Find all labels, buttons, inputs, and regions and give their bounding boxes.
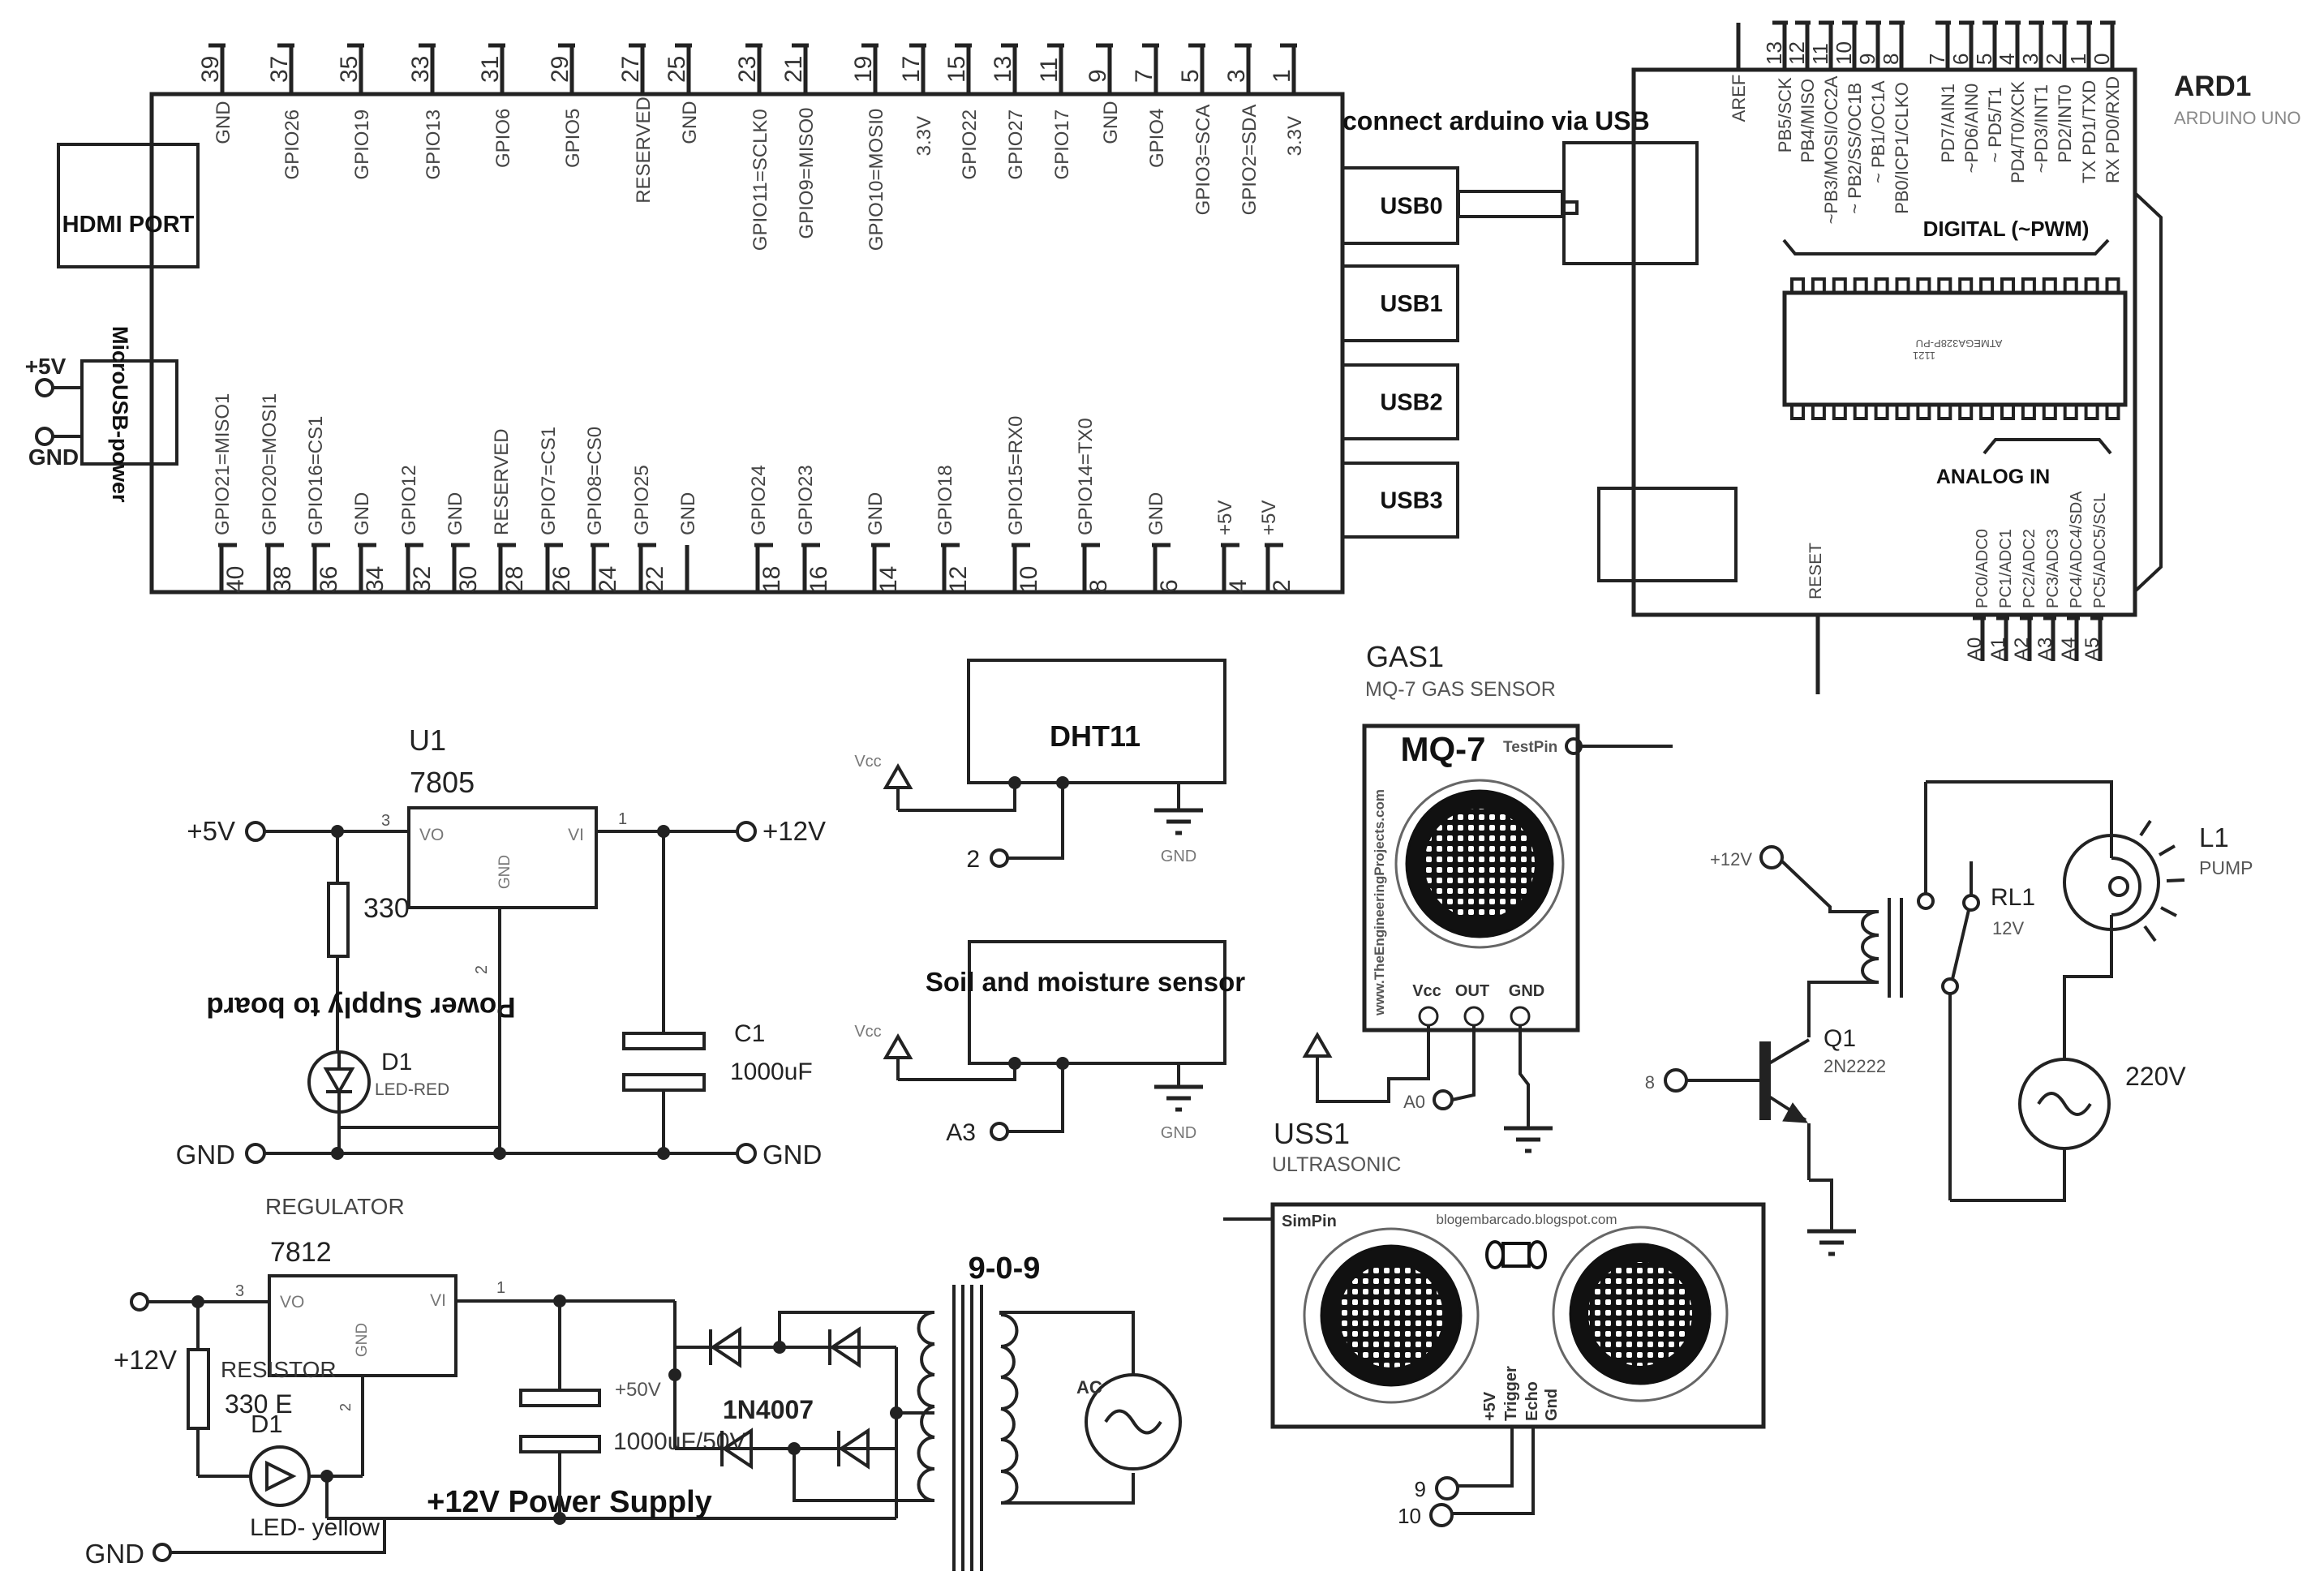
svg-text:USB3: USB3 — [1380, 488, 1442, 514]
svg-text:GPIO24: GPIO24 — [748, 465, 770, 535]
junction node +5V — [331, 825, 344, 838]
svg-text:A2: A2 — [2011, 638, 2033, 661]
svg-text:ULTRASONIC: ULTRASONIC — [1272, 1153, 1401, 1176]
diode D2 1N4007 — [711, 1329, 740, 1365]
designator ARD1 — [2174, 71, 2300, 128]
svg-text:15: 15 — [943, 56, 970, 83]
svg-text:GND: GND — [85, 1539, 144, 1569]
Raspberry Pi board outline — [152, 94, 1342, 592]
svg-text:U1: U1 — [409, 723, 446, 757]
junction GND c — [657, 1147, 670, 1160]
wire GND jog — [170, 1518, 384, 1552]
svg-text:Vcc: Vcc — [854, 753, 881, 771]
RPi pin 40 GPIO21=MISO1 — [212, 393, 249, 593]
svg-text:24: 24 — [595, 566, 621, 593]
svg-text:PUMP: PUMP — [2199, 857, 2253, 878]
svg-text:8: 8 — [1879, 54, 1903, 65]
GND rail wire — [264, 1152, 737, 1155]
junction soil vcc — [1008, 1057, 1021, 1070]
svg-text:Gnd: Gnd — [1543, 1389, 1561, 1421]
wire emitter to ground — [1809, 1180, 1832, 1231]
svg-text:7: 7 — [1925, 54, 1949, 65]
svg-text:ARDUINO UNO: ARDUINO UNO — [2174, 108, 2300, 128]
wire bridge row1 — [675, 1346, 896, 1349]
svg-text:+5V: +5V — [1258, 500, 1280, 535]
wire Echo to 10 — [1452, 1427, 1533, 1513]
Arduino pin A4 — [2058, 615, 2080, 661]
USB3 port — [1342, 463, 1458, 537]
RPi pin 1 3.3V — [1269, 45, 1306, 156]
wire secondary bottom — [1001, 1473, 1133, 1503]
RPi pin 5 GPIO3=SCA — [1177, 45, 1214, 215]
svg-text:2: 2 — [337, 1403, 354, 1411]
terminal GND right — [737, 1140, 822, 1170]
svg-text:40: 40 — [222, 566, 249, 593]
svg-text:+5V: +5V — [1481, 1391, 1499, 1421]
Arduino pin 11 ~PB3/MOSI/OC2A — [1808, 23, 1841, 224]
svg-text:1: 1 — [496, 1279, 505, 1297]
svg-text:3: 3 — [2018, 54, 2043, 65]
wire bridge right — [895, 1347, 898, 1518]
wire soil data to A3 — [1007, 1063, 1063, 1131]
svg-text:GND: GND — [351, 492, 373, 535]
svg-text:GPIO19: GPIO19 — [351, 109, 373, 180]
terminal +12V relay — [1710, 847, 1782, 869]
Arduino pin 10 ~ PB2/SS/OC1B — [1832, 23, 1865, 214]
terminal A3 — [946, 1119, 1007, 1146]
svg-text:14: 14 — [875, 566, 902, 593]
ground Q1 — [1807, 1231, 1856, 1254]
svg-text:GPIO8=CS0: GPIO8=CS0 — [584, 427, 606, 535]
svg-text:GND: GND — [445, 492, 466, 535]
svg-text:12V: 12V — [1992, 918, 2024, 938]
Arduino USB connector — [1564, 143, 1697, 264]
svg-text:23: 23 — [734, 56, 761, 83]
Arduino pin A0 — [1964, 615, 1986, 661]
wire MQ7 GND — [1520, 1025, 1528, 1128]
relay RL1 coil — [1862, 912, 1879, 982]
wire VO pin3 — [148, 1300, 269, 1303]
wire soil Vcc — [898, 1063, 1015, 1080]
RPi pin 21 GPIO9=MISO0 — [780, 45, 818, 239]
svg-text:1121: 1121 — [1913, 350, 1935, 362]
svg-text:Vcc: Vcc — [854, 1023, 881, 1041]
regulator U1 7805 box — [409, 723, 596, 908]
svg-text:1: 1 — [618, 810, 627, 828]
svg-text:GPIO4: GPIO4 — [1146, 109, 1168, 168]
svg-text:1: 1 — [2066, 54, 2090, 65]
svg-text:11: 11 — [1036, 58, 1063, 83]
svg-text:9-0-9: 9-0-9 — [969, 1252, 1041, 1286]
svg-text:MQ-7: MQ-7 — [1401, 730, 1486, 768]
ground MQ7 — [1504, 1128, 1553, 1151]
svg-text:blogembarcado.blogspot.com: blogembarcado.blogspot.com — [1436, 1212, 1617, 1227]
svg-text:9: 9 — [1855, 54, 1879, 65]
RPi pin 24 GPIO8=CS0 — [584, 427, 621, 593]
svg-text:PB5/SCK: PB5/SCK — [1775, 77, 1795, 152]
Arduino power jack — [1599, 488, 1736, 581]
junction rail cap — [553, 1512, 566, 1525]
svg-text:HDMI PORT: HDMI PORT — [62, 212, 195, 238]
wire LED to GND rail — [337, 1112, 341, 1153]
wire U1 GND pin 2 — [498, 908, 501, 1153]
svg-text:A0: A0 — [1964, 638, 1986, 661]
svg-text:GPIO13: GPIO13 — [423, 109, 445, 180]
svg-text:RESERVED: RESERVED — [633, 97, 655, 204]
diode D3 1N4007 — [830, 1329, 859, 1365]
svg-text:GPIO2=SDA: GPIO2=SDA — [1239, 105, 1261, 216]
svg-text:1000uF: 1000uF — [730, 1058, 813, 1085]
wire row2 down — [794, 1449, 934, 1501]
svg-text:Echo: Echo — [1523, 1381, 1541, 1421]
svg-text:GND: GND — [1509, 982, 1544, 1000]
svg-text:PC5/ADC5/SCL: PC5/ADC5/SCL — [2091, 493, 2109, 608]
svg-text:GAS1: GAS1 — [1366, 640, 1444, 673]
svg-text:connect arduino via USB: connect arduino via USB — [1342, 106, 1650, 135]
svg-text:4: 4 — [1225, 579, 1252, 593]
svg-text:2: 2 — [966, 846, 980, 873]
terminal VO out — [131, 1294, 148, 1310]
junction GND a — [331, 1147, 344, 1160]
Arduino pin 8 PB0/ICP1/CLKO — [1879, 23, 1912, 214]
svg-text:VI: VI — [430, 1291, 446, 1310]
RPi pin 31 GPIO6 — [477, 45, 514, 168]
RPi pin 3 GPIO2=SDA — [1223, 45, 1261, 215]
svg-text:36: 36 — [316, 566, 342, 593]
Arduino pin 13 PB5/SCK — [1762, 23, 1795, 152]
svg-text:5: 5 — [1972, 54, 1996, 65]
svg-text:USB1: USB1 — [1380, 291, 1442, 317]
RPi pin 20 GND — [677, 492, 699, 592]
RPi pin 32 GPIO12 — [398, 465, 436, 593]
resistor 330 — [329, 831, 410, 1052]
RPi pin 25 GND — [664, 45, 701, 144]
svg-text:3: 3 — [381, 812, 390, 830]
Arduino pin 6 ~PD6/AIN0 — [1948, 23, 1982, 173]
USB2 port — [1342, 365, 1458, 439]
svg-text:30: 30 — [455, 566, 482, 593]
svg-text:0: 0 — [2090, 54, 2114, 65]
svg-text:ANALOG IN: ANALOG IN — [1936, 466, 2050, 488]
wire bridge left — [673, 1301, 677, 1449]
Vcc arrow DHT11 — [854, 753, 910, 810]
Arduino analog label PC0/ADC0 — [1974, 529, 1991, 608]
wire lamp to 220V — [2064, 930, 2111, 1059]
svg-text:35: 35 — [336, 56, 363, 83]
RPi pin 15 GPIO22 — [943, 45, 981, 180]
svg-text:13: 13 — [990, 56, 1016, 83]
svg-text:PD4/T0/XCK: PD4/T0/XCK — [2008, 81, 2028, 183]
terminal 2 — [966, 846, 1007, 873]
Vcc arrow MQ7 — [1305, 1035, 1330, 1056]
capacitor C1 — [624, 831, 813, 1153]
svg-text:+5V: +5V — [187, 816, 235, 846]
transformer core — [952, 1285, 956, 1571]
terminal 9 — [1415, 1477, 1458, 1501]
svg-text:26: 26 — [548, 566, 575, 593]
bottom rail — [327, 1517, 896, 1520]
svg-text:~ PB1/OC1A: ~ PB1/OC1A — [1868, 80, 1888, 183]
svg-text:REGULATOR: REGULATOR — [265, 1194, 405, 1219]
MicroUSB power connector — [82, 326, 177, 503]
junction row1 — [773, 1341, 786, 1354]
LED D1 yellow — [198, 1410, 380, 1541]
svg-text:AC: AC — [1076, 1377, 1102, 1398]
ground soil — [1154, 1063, 1203, 1142]
svg-text:GPIO22: GPIO22 — [959, 109, 981, 180]
svg-text:3: 3 — [235, 1282, 244, 1300]
wire U3 GND pin2 — [361, 1376, 364, 1476]
wire 220V to rail — [1950, 1149, 2064, 1200]
RPi pin 13 GPIO27 — [990, 45, 1027, 180]
Arduino pin 7 PD7/AIN1 — [1925, 23, 1958, 163]
svg-text:GND: GND — [354, 1323, 371, 1357]
wire secondary top — [1001, 1312, 1133, 1375]
svg-text:37: 37 — [266, 56, 293, 83]
junction pin1 cap — [553, 1294, 566, 1307]
Arduino pin A2 — [2011, 615, 2033, 661]
svg-text:MQ-7 GAS SENSOR: MQ-7 GAS SENSOR — [1365, 678, 1556, 701]
Arduino pin 9 ~ PB1/OC1A — [1855, 23, 1888, 183]
svg-text:7805: 7805 — [410, 766, 475, 799]
svg-text:+5V: +5V — [25, 354, 67, 379]
svg-text:19: 19 — [850, 56, 877, 83]
svg-text:GPIO23: GPIO23 — [795, 465, 817, 535]
wire GND to MicroUSB — [53, 435, 82, 438]
wire U3 pin1 — [456, 1299, 675, 1303]
svg-text:SimPin: SimPin — [1282, 1213, 1337, 1230]
Arduino analog label PC5/ADC5/SCL — [2091, 493, 2109, 608]
svg-text:2: 2 — [473, 965, 491, 974]
RPi pin 16 GPIO23 — [795, 465, 832, 593]
wire relay to bottom rail — [1948, 994, 1952, 1200]
svg-text:RX PD0/RXD: RX PD0/RXD — [2103, 76, 2123, 183]
AC source mains — [1076, 1375, 1180, 1469]
designator RL1 — [1991, 884, 2035, 938]
RPi pin 38 GPIO20=MOSI1 — [259, 393, 296, 593]
svg-text:Vcc: Vcc — [1412, 982, 1441, 1000]
USB0 port — [1342, 168, 1458, 243]
RPi pin 12 GPIO18 — [934, 465, 972, 593]
lamp L1 PUMP — [2064, 821, 2253, 941]
digital pins bracket — [1784, 240, 2108, 254]
gas sensor GAS1 MQ-7 — [1364, 726, 1578, 1030]
Arduino pin A5 — [2081, 615, 2103, 661]
svg-text:39: 39 — [197, 56, 224, 83]
svg-text:38: 38 — [269, 566, 296, 593]
TestPin pin — [1566, 739, 1673, 754]
wire +5V to U1 pin 3 — [264, 830, 409, 833]
svg-text:330: 330 — [363, 893, 410, 924]
terminal 8 base — [1645, 1070, 1686, 1093]
relay common node — [1943, 979, 1957, 994]
svg-text:GPIO7=CS1: GPIO7=CS1 — [538, 427, 560, 535]
wire center tap — [896, 1411, 934, 1415]
wire SimPin — [1223, 1217, 1273, 1221]
svg-text:PD2/INT0: PD2/INT0 — [2055, 84, 2075, 163]
svg-text:RESET: RESET — [1806, 543, 1825, 599]
RPi pin 23 GPIO11=SCLK0 — [734, 45, 771, 251]
svg-text:6: 6 — [1948, 54, 1973, 65]
wire DHT11 data to pin2 — [1007, 783, 1063, 858]
svg-text:33: 33 — [407, 56, 434, 83]
transformer secondary winding — [1001, 1315, 1017, 1503]
Arduino pin A1 — [1987, 615, 2009, 661]
svg-text:AREF: AREF — [1729, 75, 1749, 122]
svg-text:A3: A3 — [946, 1119, 976, 1146]
Arduino pin 2 PD2/INT0 — [2042, 23, 2075, 163]
RPi pin 18 GPIO24 — [748, 465, 785, 593]
RPi pin 2 +5V — [1258, 500, 1295, 593]
GND supply terminal — [28, 428, 79, 470]
Arduino pin 1 TX PD1/TXD — [2066, 23, 2099, 183]
svg-text:4: 4 — [1995, 54, 2019, 65]
svg-text:GND: GND — [679, 101, 701, 144]
svg-text:2: 2 — [1269, 579, 1295, 593]
sensor soil moisture box — [926, 942, 1245, 1063]
svg-text:3.3V: 3.3V — [913, 116, 935, 156]
svg-text:13: 13 — [1762, 41, 1786, 65]
svg-text:~ PD5/T1: ~ PD5/T1 — [1985, 87, 2005, 163]
svg-text:GPIO11=SCLK0: GPIO11=SCLK0 — [750, 109, 771, 251]
svg-text:2N2222: 2N2222 — [1824, 1056, 1886, 1076]
svg-text:GPIO12: GPIO12 — [398, 465, 420, 535]
svg-text:GPIO17: GPIO17 — [1051, 109, 1073, 180]
svg-text:7: 7 — [1131, 69, 1158, 83]
svg-text:1N4007: 1N4007 — [723, 1395, 814, 1424]
Vcc arrow soil — [854, 1023, 910, 1080]
Arduino analog label PC1/ADC1 — [1997, 529, 2015, 608]
wire MQ7 OUT to A0 — [1452, 1025, 1474, 1100]
Arduino pin A3 — [2034, 615, 2056, 661]
svg-text:VO: VO — [419, 826, 444, 844]
Arduino analog label PC4/ADC4/SDA — [2068, 491, 2086, 608]
svg-text:www.TheEngineeringProjects.com: www.TheEngineeringProjects.com — [1372, 789, 1387, 1016]
svg-text:L1: L1 — [2199, 822, 2229, 852]
terminal 10 — [1398, 1504, 1452, 1528]
analog pins bracket — [1984, 440, 2111, 453]
ground DHT11 — [1154, 783, 1203, 865]
svg-text:~ PB2/SS/OC1B: ~ PB2/SS/OC1B — [1845, 83, 1865, 214]
svg-text:VO: VO — [280, 1293, 304, 1312]
svg-text:VI: VI — [568, 826, 584, 844]
RPi pin 30 GND — [445, 492, 482, 593]
svg-text:PB0/ICP1/CLKO: PB0/ICP1/CLKO — [1892, 82, 1912, 214]
diode D4 1N4007 — [722, 1431, 751, 1466]
svg-text:GPIO5: GPIO5 — [562, 109, 584, 168]
USB1 port — [1342, 266, 1458, 341]
RPi pin 22 GPIO25 — [631, 465, 668, 593]
wire coil to collector — [1809, 982, 1877, 1037]
junction DHT11 vcc — [1008, 776, 1021, 789]
regulator U3 7812 box — [269, 1276, 456, 1376]
svg-text:12: 12 — [1785, 41, 1809, 65]
svg-text:7812: 7812 — [270, 1237, 332, 1268]
Arduino right edge connector bevel — [2135, 193, 2161, 591]
svg-text:GND: GND — [865, 492, 887, 535]
svg-text:32: 32 — [409, 566, 436, 593]
svg-text:GPIO16=CS1: GPIO16=CS1 — [305, 416, 327, 535]
svg-text:Trigger: Trigger — [1502, 1366, 1520, 1421]
svg-text:6: 6 — [1156, 579, 1183, 593]
svg-text:GPIO25: GPIO25 — [631, 465, 653, 535]
svg-text:10: 10 — [1016, 566, 1042, 593]
relay contact left — [1918, 782, 1933, 908]
Arduino RESET pin — [1806, 543, 1825, 694]
RPi pin 4 +5V — [1214, 500, 1252, 593]
svg-text:DIGITAL (~PWM): DIGITAL (~PWM) — [1923, 217, 2090, 241]
terminal +12V — [737, 816, 826, 846]
svg-text:31: 31 — [477, 56, 504, 83]
svg-text:LED-RED: LED-RED — [375, 1080, 449, 1099]
Arduino analog label PC3/ADC3 — [2044, 529, 2062, 608]
RPi pin 34 GND — [351, 492, 389, 593]
RPi pin 29 GPIO5 — [547, 45, 584, 168]
HDMI port — [58, 144, 198, 267]
RPi pin 27 RESERVED — [617, 45, 655, 204]
svg-text:GND: GND — [1161, 848, 1196, 865]
junction +50V — [668, 1368, 681, 1381]
svg-text:A3: A3 — [2034, 638, 2056, 661]
RPi pin 6 GND — [1145, 492, 1183, 593]
junction VO — [191, 1295, 204, 1308]
svg-text:ATMEGA328P-PU: ATMEGA328P-PU — [1916, 337, 2003, 350]
svg-text:GPIO27: GPIO27 — [1005, 109, 1027, 180]
svg-text:PC0/ADC0: PC0/ADC0 — [1974, 529, 1991, 608]
microcontroller U2 ATMEGA328P-PU — [1785, 279, 2125, 419]
wire LED to rail — [325, 1476, 329, 1518]
svg-text:29: 29 — [547, 56, 573, 83]
RPi pin 14 GND — [865, 492, 902, 593]
svg-text:MicroUSB-power: MicroUSB-power — [108, 326, 132, 503]
svg-text:GND: GND — [762, 1140, 822, 1170]
Arduino pin 0 RX PD0/RXD — [2090, 23, 2123, 183]
wire Trigger to 9 — [1458, 1427, 1512, 1486]
svg-text:~PD6/AIN0: ~PD6/AIN0 — [1961, 84, 1982, 174]
svg-text:GPIO6: GPIO6 — [492, 109, 514, 168]
svg-text:PD7/AIN1: PD7/AIN1 — [1938, 84, 1958, 163]
relay core bars — [1888, 898, 1891, 998]
svg-text:DHT11: DHT11 — [1050, 719, 1141, 753]
svg-text:12: 12 — [945, 566, 972, 593]
Arduino pin 4 PD4/T0/XCK — [1995, 23, 2028, 183]
Arduino pin AREF AREF — [1729, 23, 1749, 122]
wire bridge row2 — [675, 1447, 896, 1450]
svg-text:GPIO15=RX0: GPIO15=RX0 — [1005, 416, 1027, 535]
svg-text:GPIO9=MISO0: GPIO9=MISO0 — [796, 108, 818, 239]
junction center tap — [890, 1406, 903, 1419]
AC source 220V — [2020, 1059, 2186, 1149]
svg-text:+5V: +5V — [1214, 500, 1236, 535]
svg-text:D1: D1 — [251, 1410, 283, 1438]
junction node VI — [657, 825, 670, 838]
RPi pin 26 GPIO7=CS1 — [538, 427, 575, 593]
svg-text:PB4/MISO: PB4/MISO — [1798, 79, 1818, 163]
ultrasonic sensor USS1 — [1273, 1204, 1763, 1427]
svg-text:Q1: Q1 — [1824, 1025, 1856, 1052]
svg-text:27: 27 — [617, 56, 644, 83]
svg-text:8: 8 — [1645, 1072, 1655, 1093]
svg-text:18: 18 — [758, 566, 785, 593]
svg-text:10: 10 — [1832, 41, 1856, 65]
terminal A0 — [1403, 1091, 1452, 1112]
svg-text:TX PD1/TXD: TX PD1/TXD — [2079, 80, 2099, 183]
junction GND b — [493, 1147, 506, 1160]
svg-text:A5: A5 — [2081, 638, 2103, 661]
capacitor C2 1000uF/50V — [521, 1301, 599, 1518]
label Power Supply to board — [206, 991, 515, 1023]
svg-text:22: 22 — [642, 566, 668, 593]
